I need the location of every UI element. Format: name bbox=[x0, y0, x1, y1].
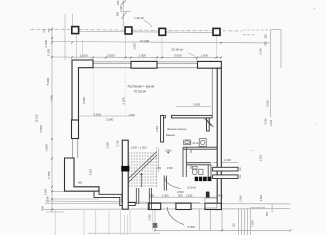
svg-text:3.700: 3.700 bbox=[116, 140, 120, 147]
svg-text:2.200: 2.200 bbox=[106, 142, 110, 149]
svg-text:3.000: 3.000 bbox=[174, 54, 182, 58]
svg-text:3.500: 3.500 bbox=[177, 190, 184, 194]
svg-text:300: 300 bbox=[116, 0, 120, 5]
svg-text:3.610: 3.610 bbox=[94, 112, 102, 116]
svg-text:– ·–: – ·– bbox=[250, 149, 255, 152]
svg-text:Ванная комната: Ванная комната bbox=[167, 128, 186, 131]
svg-text:300: 300 bbox=[264, 34, 267, 39]
svg-text:1.400: 1.400 bbox=[50, 95, 54, 102]
svg-text:1.400: 1.400 bbox=[162, 194, 169, 198]
svg-text:2.000: 2.000 bbox=[106, 118, 114, 122]
svg-text:5.900: 5.900 bbox=[82, 97, 86, 104]
svg-text:500: 500 bbox=[265, 211, 269, 216]
svg-text:70.33 м²: 70.33 м² bbox=[133, 89, 147, 93]
svg-text:300: 300 bbox=[116, 11, 120, 16]
svg-text:1.310: 1.310 bbox=[224, 158, 232, 162]
svg-text:2.000: 2.000 bbox=[44, 40, 48, 48]
svg-text:1.000: 1.000 bbox=[260, 154, 263, 161]
svg-text:Гостиная + кухня: Гостиная + кухня bbox=[128, 85, 155, 89]
svg-text:900: 900 bbox=[178, 194, 183, 198]
svg-text:2.000: 2.000 bbox=[193, 103, 200, 107]
svg-text:1.000: 1.000 bbox=[43, 188, 47, 195]
svg-text:5.300: 5.300 bbox=[121, 97, 125, 104]
svg-text:1,90 м²: 1,90 м² bbox=[134, 16, 144, 20]
svg-text:1.500 + 1.000: 1.500 + 1.000 bbox=[131, 145, 147, 149]
svg-text:7,41 м²: 7,41 м² bbox=[190, 141, 199, 145]
svg-text:1.900: 1.900 bbox=[156, 125, 159, 132]
svg-text:Ванная: Ванная bbox=[166, 133, 175, 137]
svg-text:1.500: 1.500 bbox=[45, 144, 49, 152]
svg-text:-:: -: bbox=[315, 122, 317, 125]
svg-text:2.900: 2.900 bbox=[239, 195, 243, 202]
svg-text:3.000: 3.000 bbox=[265, 100, 269, 107]
svg-text:.-: .- bbox=[314, 196, 316, 199]
svg-text:750: 750 bbox=[157, 167, 162, 170]
svg-text:2.300: 2.300 bbox=[119, 5, 123, 12]
svg-text:2.000: 2.000 bbox=[134, 43, 137, 50]
svg-text:11.100: 11.100 bbox=[35, 114, 39, 123]
svg-text:1.500: 1.500 bbox=[167, 167, 174, 170]
svg-text:800: 800 bbox=[40, 205, 44, 210]
svg-text:5.900: 5.900 bbox=[46, 77, 50, 85]
svg-text:5,00 м²: 5,00 м² bbox=[187, 186, 196, 190]
svg-text:1.000: 1.000 bbox=[80, 54, 88, 58]
svg-text:0.000: 0.000 bbox=[165, 148, 172, 152]
svg-text:800: 800 bbox=[78, 181, 83, 184]
svg-text:130: 130 bbox=[232, 223, 235, 228]
svg-text:1.100: 1.100 bbox=[270, 119, 273, 126]
svg-text:1.570: 1.570 bbox=[129, 114, 136, 117]
svg-text:3.000: 3.000 bbox=[107, 54, 115, 58]
svg-text:240: 240 bbox=[150, 194, 155, 198]
svg-text:2.800: 2.800 bbox=[259, 194, 263, 201]
svg-text:2.000: 2.000 bbox=[258, 48, 262, 55]
svg-text:7.800: 7.800 bbox=[250, 220, 254, 227]
svg-text:20.00 м²: 20.00 м² bbox=[172, 48, 184, 52]
svg-text:2.300: 2.300 bbox=[46, 49, 50, 57]
svg-text:1.400: 1.400 bbox=[147, 214, 151, 221]
svg-text:·: · bbox=[170, 42, 171, 45]
svg-text:2.000: 2.000 bbox=[265, 118, 268, 125]
svg-text:2.700: 2.700 bbox=[47, 171, 51, 179]
svg-text:10.000: 10.000 bbox=[140, 39, 150, 43]
svg-text:5.500: 5.500 bbox=[188, 225, 196, 229]
svg-text:2.000: 2.000 bbox=[139, 54, 147, 58]
svg-text:1.000: 1.000 bbox=[201, 54, 209, 58]
svg-text:4.500: 4.500 bbox=[39, 125, 43, 133]
svg-text:2.300: 2.300 bbox=[89, 168, 93, 175]
svg-text:400: 400 bbox=[218, 194, 223, 198]
svg-text:1.205: 1.205 bbox=[186, 194, 193, 198]
svg-text:1.000: 1.000 bbox=[45, 196, 49, 203]
svg-text:900: 900 bbox=[264, 41, 267, 46]
